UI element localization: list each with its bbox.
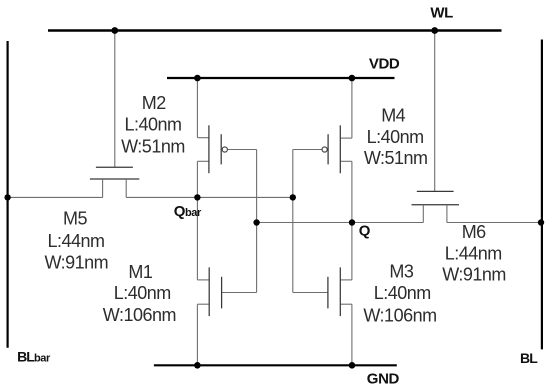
svg-text:M5: M5 bbox=[63, 209, 87, 229]
junction GND-M3 bbox=[349, 362, 356, 369]
wire WL rail bbox=[48, 29, 502, 31]
wire M3 source to GND bbox=[351, 304, 353, 365]
transistor M5 channel bar bbox=[90, 178, 139, 180]
wire BL bit line bbox=[541, 40, 543, 350]
transistor M5 gate bar bbox=[96, 166, 133, 168]
junction Q-BL bbox=[538, 219, 544, 225]
wire WL to M5 gate bbox=[114, 31, 116, 167]
svg-text:M6: M6 bbox=[462, 222, 486, 242]
transistor M3 source stub bbox=[340, 303, 352, 305]
svg-text:BLbar: BLbar bbox=[17, 348, 51, 364]
svg-text:WL: WL bbox=[430, 5, 453, 22]
transistor M3 gate bar bbox=[327, 277, 329, 309]
svg-text:M4: M4 bbox=[381, 106, 405, 126]
junction BLbar-Qbar bbox=[4, 194, 10, 200]
junction Q-right inverter output bbox=[349, 219, 355, 225]
transistor M2 gate bar bbox=[220, 134, 222, 164]
junction Qbar-left inverter output bbox=[194, 194, 200, 200]
transistor M2 pmos bubble bbox=[222, 147, 227, 152]
wire node Q left segment gate column to M6 bbox=[257, 222, 424, 224]
transistor M2 source stub bbox=[197, 137, 209, 139]
junction Qbar-right gate column bbox=[290, 194, 296, 200]
wire M4 drain to Q to M3 drain bbox=[351, 161, 353, 280]
wire node Qbar right segment M5 to right gate column bbox=[126, 196, 293, 198]
svg-text:GND: GND bbox=[367, 370, 400, 387]
wire M1 gate lead bbox=[222, 292, 257, 294]
transistor M2 channel bar bbox=[208, 125, 210, 173]
wire M3 gate lead bbox=[293, 292, 328, 294]
svg-text:W:106nm: W:106nm bbox=[103, 305, 176, 325]
svg-text:L:44nm: L:44nm bbox=[445, 244, 502, 264]
svg-text:VDD: VDD bbox=[369, 56, 400, 73]
transistor M6 gate bar bbox=[417, 190, 454, 192]
wire WL to M6 gate bbox=[434, 31, 436, 191]
junction Q-left gate column bbox=[253, 219, 259, 225]
transistor M6 channel bar bbox=[412, 204, 460, 206]
transistor M1 channel bar bbox=[208, 267, 210, 316]
transistor M5 left stub bbox=[102, 179, 104, 197]
svg-text:L:40nm: L:40nm bbox=[367, 127, 424, 147]
junction WL-M6 bbox=[431, 27, 438, 34]
svg-text:M3: M3 bbox=[389, 262, 413, 282]
svg-text:W:51nm: W:51nm bbox=[121, 137, 185, 157]
wire M2 gate lead bbox=[227, 149, 256, 151]
wire node Q right segment M6 to BL bbox=[447, 222, 541, 224]
svg-text:M2: M2 bbox=[142, 93, 166, 113]
svg-text:L:40nm: L:40nm bbox=[114, 283, 171, 303]
transistor M1 drain stub bbox=[197, 279, 209, 281]
transistor M4 drain stub bbox=[340, 160, 352, 162]
svg-text:BL: BL bbox=[520, 350, 538, 366]
svg-text:W:106nm: W:106nm bbox=[363, 306, 436, 326]
junction VDD-M2 bbox=[194, 75, 201, 82]
wire node Qbar left segment BLbar to M5 bbox=[8, 196, 103, 198]
transistor M5 right stub bbox=[125, 179, 127, 197]
wire BLbar bit line bbox=[6, 41, 8, 348]
wire VDD to M2 source bbox=[196, 78, 198, 138]
svg-text:L:40nm: L:40nm bbox=[124, 115, 181, 135]
transistor M4 source stub bbox=[340, 137, 352, 139]
transistor M2 drain stub bbox=[197, 160, 209, 162]
wire VDD to M4 source bbox=[351, 78, 353, 138]
wire right inverter gate column bbox=[292, 150, 294, 293]
wire M4 gate lead bbox=[293, 149, 322, 151]
svg-text:M1: M1 bbox=[128, 262, 152, 282]
svg-text:Q: Q bbox=[359, 222, 371, 239]
svg-text:L:44nm: L:44nm bbox=[47, 231, 104, 251]
junction VDD-M4 bbox=[349, 75, 356, 82]
transistor M4 channel bar bbox=[339, 125, 341, 173]
transistor M6 right stub bbox=[446, 205, 448, 223]
transistor M3 channel bar bbox=[339, 267, 341, 316]
wire left inverter gate column bbox=[256, 150, 258, 293]
transistor M1 gate bar bbox=[221, 277, 223, 309]
svg-text:W:91nm: W:91nm bbox=[442, 264, 506, 284]
svg-text:W:51nm: W:51nm bbox=[364, 148, 428, 168]
transistor M4 gate bar bbox=[327, 134, 329, 164]
junction GND-M1 bbox=[194, 362, 201, 369]
transistor M4 pmos bubble bbox=[322, 147, 327, 152]
transistor M3 drain stub bbox=[340, 279, 352, 281]
wire GND rail bbox=[154, 364, 397, 366]
transistor M1 source stub bbox=[197, 303, 209, 305]
svg-text:L:40nm: L:40nm bbox=[374, 283, 431, 303]
transistor M6 left stub bbox=[422, 205, 424, 223]
wire M1 source to GND bbox=[196, 304, 198, 365]
junction WL-M5 bbox=[111, 27, 118, 34]
svg-text:W:91nm: W:91nm bbox=[44, 253, 108, 273]
wire VDD rail bbox=[167, 77, 395, 79]
wire M2 drain to Qbar to M1 drain bbox=[196, 161, 198, 280]
